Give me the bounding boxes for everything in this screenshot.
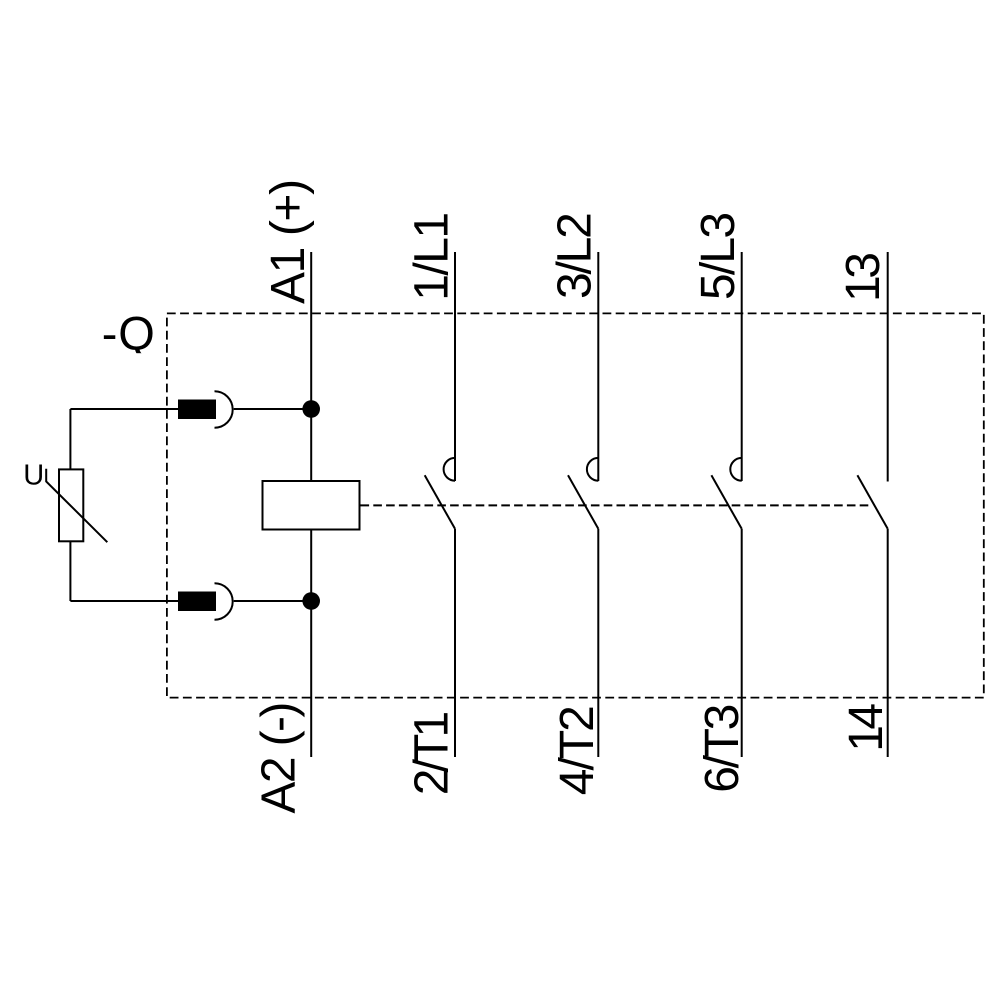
svg-text:A2 (-): A2 (-) (252, 703, 305, 813)
terminal clamp A2 body (178, 592, 216, 612)
moving contact L1 (425, 475, 455, 529)
svg-text:14: 14 (840, 704, 893, 752)
svg-text:4/T2: 4/T2 (551, 707, 604, 795)
terminal clamp A1 body (178, 400, 216, 420)
terminal clamp A1 arc (215, 391, 233, 427)
label -Q tail trim (130, 353, 158, 360)
wire terminal A2 to node (234, 600, 312, 602)
contactor enclosure (dashed outline) (167, 313, 984, 697)
node A1 junction dot (302, 400, 320, 418)
svg-text:2/T1: 2/T1 (406, 713, 459, 796)
wire 2/T1 (454, 529, 456, 757)
svg-text:1/L1: 1/L1 (405, 213, 458, 300)
mechanical linkage (dashed) (361, 504, 872, 506)
wire varistor left vertical lower (69, 541, 71, 601)
moving contact L3 (711, 475, 741, 529)
wire A1 upper (310, 252, 312, 481)
moving contact aux 13-14 (857, 475, 887, 529)
wire varistor left vertical upper (69, 409, 71, 469)
moving contact L2 (568, 475, 598, 529)
wire 6/T3 (741, 529, 743, 757)
contact arc L3 (730, 458, 741, 481)
coil K1 (263, 481, 360, 530)
wire terminal A1 to node (234, 408, 312, 410)
varistor RV diagonal (46, 469, 107, 542)
svg-text:3/L2: 3/L2 (549, 214, 602, 299)
svg-text:A1 (+): A1 (+) (262, 180, 315, 304)
svg-text:-Q: -Q (102, 306, 156, 359)
varistor RV rect (59, 469, 83, 541)
wire varistor top horizontal (70, 408, 178, 410)
wire 1/L1 upper (454, 252, 456, 481)
wire 3/L2 upper (597, 252, 599, 481)
wire varistor bottom horizontal (70, 600, 178, 602)
node A2 junction dot (302, 592, 320, 610)
svg-text:U: U (23, 460, 44, 492)
svg-text:6/T3: 6/T3 (696, 705, 749, 792)
wire 14 (887, 529, 889, 757)
wire 4/T2 (597, 529, 599, 757)
contact arc L1 (444, 458, 455, 481)
svg-text:5/L3: 5/L3 (692, 214, 745, 300)
svg-text:13: 13 (837, 254, 890, 302)
wire 5/L3 upper (741, 252, 743, 481)
wire A1 lower (310, 530, 312, 758)
wire 13 upper (887, 252, 889, 482)
terminal clamp A2 arc (215, 583, 233, 619)
contact arc L2 (587, 458, 598, 481)
